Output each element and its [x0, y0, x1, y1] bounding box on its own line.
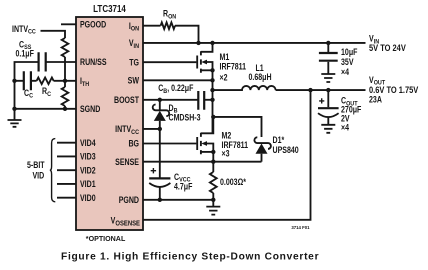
capacitor CVCC — [149, 178, 170, 199]
wire INTVCC feed to pull-up — [41, 31, 66, 38]
svg-text:0.003Ω*: 0.003Ω* — [220, 177, 247, 187]
label M1 — [220, 52, 230, 62]
ground at CIN — [321, 74, 335, 82]
ground at RSENSE — [206, 200, 220, 215]
label L1 — [256, 63, 265, 73]
wire INTVCC to CVCC — [159, 129, 161, 178]
svg-text:35V: 35V — [341, 57, 354, 67]
label CVCC value 4.7uF — [174, 182, 192, 192]
capacitor CC — [24, 71, 31, 90]
svg-text:CMDSH-3: CMDSH-3 — [169, 113, 202, 123]
junction RSENSE at PGND — [211, 198, 215, 202]
wire R2 leads — [64, 81, 66, 109]
wire VID3 stub — [57, 155, 76, 157]
svg-text:VID3: VID3 — [80, 152, 96, 162]
resistor R1 INTVCC to ITH — [62, 38, 69, 57]
pin SENSE label — [115, 157, 139, 167]
label CIN voltage 35V — [341, 57, 354, 67]
label CIN value 10uF — [341, 47, 358, 57]
svg-text:RON: RON — [163, 9, 177, 21]
label D1 — [273, 135, 286, 145]
wire SGND line — [15, 108, 77, 110]
label 5-BIT — [27, 160, 45, 170]
capacitor CVCC plus sign — [151, 168, 156, 173]
pin PGOOD label — [80, 20, 106, 30]
wire VID1 stub — [57, 183, 76, 185]
node INTVCC supply label — [12, 24, 36, 36]
pin VIN label — [129, 38, 140, 50]
label RC — [42, 86, 51, 98]
label CB value — [158, 83, 193, 95]
svg-text:CC: CC — [24, 88, 33, 100]
pin BG label — [128, 139, 139, 149]
svg-text:D1*: D1* — [273, 135, 286, 145]
pin BOOST label — [114, 95, 139, 105]
svg-text:BOOST: BOOST — [114, 95, 139, 105]
label D1 part UPS840 — [273, 145, 300, 155]
svg-text:IRF7811: IRF7811 — [220, 62, 247, 72]
svg-text:×4: ×4 — [341, 67, 350, 77]
svg-text:RC: RC — [42, 86, 51, 98]
pin ITH label — [80, 76, 90, 88]
wire PGND line — [143, 199, 213, 201]
wire BG gate line — [143, 143, 196, 145]
capacitor COUT plus sign — [319, 98, 324, 103]
wire VOSENSE line to VOUT — [143, 90, 311, 220]
label DB part CMDSH-3 — [169, 113, 202, 123]
label CVCC — [174, 172, 191, 184]
svg-text:VID2: VID2 — [80, 166, 96, 176]
svg-text:×3: ×3 — [222, 149, 231, 159]
wire SW node vertical — [212, 80, 214, 133]
wire PGOOD stub — [61, 23, 76, 25]
svg-text:RUN/SS: RUN/SS — [80, 57, 107, 67]
svg-text:4.7μF: 4.7μF — [174, 182, 192, 192]
label M2 — [222, 131, 232, 141]
svg-text:SENSE: SENSE — [115, 157, 139, 167]
wire VID2 stub — [57, 169, 76, 171]
junction R2 at SGND — [63, 107, 67, 111]
wire ION line — [143, 25, 161, 27]
pin VID0 label — [80, 193, 96, 203]
pin SGND label — [80, 104, 101, 114]
label CSS value 0.1uF — [16, 49, 34, 59]
svg-text:×2: ×2 — [220, 73, 229, 83]
diode DB CMDSH-3 — [153, 100, 169, 129]
ground at COUT — [321, 125, 335, 133]
label M2 count x3 — [222, 149, 231, 159]
node VIN output label — [369, 34, 380, 46]
resistor R2 ITH to SGND — [62, 87, 69, 106]
resistor RON — [161, 22, 175, 29]
transistor M2 — [197, 117, 215, 162]
brace 5-BIT VID — [50, 139, 56, 202]
wire SW line — [143, 79, 213, 81]
label OPTIONAL note — [86, 234, 126, 243]
label M1 count x2 — [220, 73, 229, 83]
junction M1 drain at VIN rail — [210, 41, 214, 45]
pin INTVCC label — [115, 124, 139, 136]
junction COUT at VOUT rail — [326, 88, 330, 92]
junction SW at D1 branch — [211, 115, 215, 119]
svg-text:M1: M1 — [220, 52, 230, 62]
junction DB INTVCC — [158, 127, 162, 131]
pin TG label — [129, 58, 139, 68]
label VID — [33, 171, 45, 181]
wire INTVCC pin line — [143, 128, 160, 130]
junction R1 R2 at ITH — [63, 79, 67, 83]
wire VID4 stub — [57, 142, 76, 144]
pin ION label — [129, 21, 140, 33]
label RON — [163, 9, 177, 21]
svg-text:SGND: SGND — [80, 104, 101, 114]
svg-text:LTC3714: LTC3714 — [93, 3, 126, 14]
svg-text:TG: TG — [129, 58, 139, 68]
svg-text:0.6V TO 1.75V: 0.6V TO 1.75V — [369, 85, 419, 95]
junction CC at ground rail — [12, 79, 16, 83]
svg-text:5V TO 24V: 5V TO 24V — [369, 43, 406, 53]
wire VOUT rail — [276, 89, 366, 91]
label COUT value 270uF — [341, 105, 361, 115]
label COUT — [341, 96, 358, 108]
svg-text:VID: VID — [33, 171, 45, 181]
pin VOSENSE label — [111, 216, 141, 228]
capacitor CB — [198, 91, 204, 110]
wire VIN rail — [143, 42, 366, 44]
junction CB at SW node — [210, 98, 214, 102]
label CC — [24, 88, 33, 100]
resistor RSENSE 0.003 ohm — [210, 162, 217, 200]
label CIN count x4 — [341, 67, 350, 77]
pin VID1 label — [80, 179, 96, 189]
label COUT voltage 2V — [341, 114, 350, 124]
label RSENSE value — [220, 177, 247, 187]
junction L1 at SW node — [210, 88, 214, 92]
wire TG gate line — [143, 61, 196, 63]
label VOUT range — [369, 85, 419, 95]
wire CB to SW node — [204, 99, 212, 101]
svg-text:PGND: PGND — [119, 195, 140, 205]
wire R1 bottom to ITH line — [64, 57, 66, 81]
wire SENSE line — [143, 161, 262, 163]
junction SW — [210, 78, 214, 82]
label VOUT current 23A — [369, 95, 382, 105]
junction VOSENSE at VOUT rail — [308, 88, 312, 92]
svg-text:CB, 0.22μF: CB, 0.22μF — [158, 83, 193, 95]
svg-text:M2: M2 — [222, 131, 232, 141]
capacitor CIN 10uF — [319, 43, 338, 74]
pin SW label — [128, 76, 140, 86]
svg-text:×4: ×4 — [341, 123, 350, 133]
wire RUN/SS line right of CSS — [46, 61, 76, 63]
junction BOOST DB — [158, 98, 162, 102]
inductor L1 — [213, 86, 276, 90]
capacitor CSS — [39, 52, 46, 71]
pin VID2 label — [80, 166, 96, 176]
pin VID4 label — [80, 138, 96, 148]
svg-text:VID4: VID4 — [80, 138, 96, 148]
svg-text:3714 F01: 3714 F01 — [291, 225, 310, 230]
label LTC3714 — [93, 3, 126, 14]
svg-text:PGOOD: PGOOD — [80, 20, 106, 30]
ground left — [8, 120, 22, 127]
wire BOOST line — [143, 99, 198, 101]
svg-text:23A: 23A — [369, 95, 382, 105]
svg-text:10μF: 10μF — [341, 47, 358, 57]
node VOUT output label — [369, 75, 385, 87]
junction M2 source at SENSE — [211, 160, 215, 164]
junction CVCC at PGND — [158, 198, 162, 202]
IC U1 LTC3714 body — [76, 17, 143, 230]
svg-text:UPS840: UPS840 — [273, 145, 300, 155]
svg-text:0.1μF: 0.1μF — [16, 49, 34, 59]
label DB — [169, 103, 178, 115]
svg-text:BG: BG — [128, 139, 139, 149]
svg-text:*OPTIONAL: *OPTIONAL — [86, 234, 126, 243]
junction SGND at ground rail — [12, 107, 16, 111]
label M2 part IRF7811 — [222, 140, 249, 150]
pin RUN/SS label — [80, 57, 107, 67]
label COUT count x4 — [341, 123, 350, 133]
svg-text:5-BIT: 5-BIT — [27, 160, 45, 170]
label M1 part IRF7811 — [220, 62, 247, 72]
svg-text:Figure 1. High Efficiency Step: Figure 1. High Efficiency Step-Down Conv… — [61, 252, 319, 263]
wire ITH line segments — [15, 80, 77, 82]
pin PGND label — [119, 195, 140, 205]
svg-text:VID0: VID0 — [80, 193, 96, 203]
svg-text:SW: SW — [128, 76, 140, 86]
junction RON at VIN rail — [196, 41, 200, 45]
wire D1 branch top — [213, 117, 261, 137]
transistor M1 — [197, 43, 215, 80]
capacitor COUT — [318, 90, 339, 125]
junction CIN at VIN rail — [326, 41, 330, 45]
label VIN range — [369, 43, 406, 53]
wire RON to VIN rail — [175, 26, 199, 43]
label figure number 3714 F01 — [291, 225, 310, 230]
wire RUN/SS to ground rail — [15, 62, 39, 120]
pin VID3 label — [80, 152, 96, 162]
wire VID0 stub — [57, 197, 76, 199]
svg-text:0.68μH: 0.68μH — [249, 72, 272, 82]
label L1 value 0.68uH — [249, 72, 272, 82]
svg-text:VID1: VID1 — [80, 179, 96, 189]
svg-text:INTVCC: INTVCC — [12, 24, 36, 36]
diode D1 UPS840 — [254, 137, 271, 161]
label CSS — [19, 40, 31, 52]
resistor RC — [37, 78, 54, 85]
